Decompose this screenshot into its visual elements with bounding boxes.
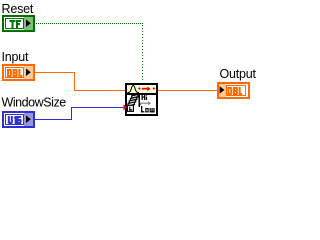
- svg-text:Reset: Reset: [2, 2, 34, 16]
- svg-text:WindowSize: WindowSize: [2, 96, 67, 110]
- svg-text:Output: Output: [220, 67, 257, 81]
- svg-text:Input: Input: [2, 50, 30, 64]
